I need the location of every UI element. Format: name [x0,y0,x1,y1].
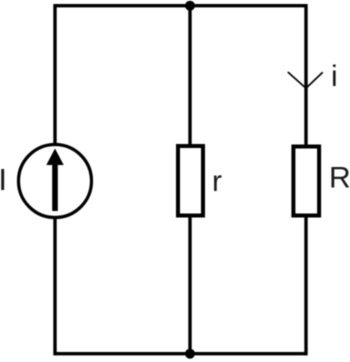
node junction bottom [185,349,195,359]
svg-text:R: R [329,162,350,195]
current source U1 circle [19,145,92,218]
resistor R body [293,147,319,216]
current arrow i chevron [288,72,323,88]
wire right branch upper [304,4,307,147]
wire left branch upper [53,4,56,145]
wire bottom rail [55,352,306,355]
wire middle branch lower [188,216,191,354]
wire left branch lower [53,218,56,356]
wire right branch lower [304,216,307,356]
node junction top [185,1,195,11]
wire middle branch upper [188,6,191,146]
svg-text:i: i [331,60,338,93]
wire top rail [55,4,306,7]
svg-text:I: I [0,162,7,197]
svg-text:r: r [212,165,222,198]
current source arrow [46,149,63,212]
resistor r body [178,146,203,216]
